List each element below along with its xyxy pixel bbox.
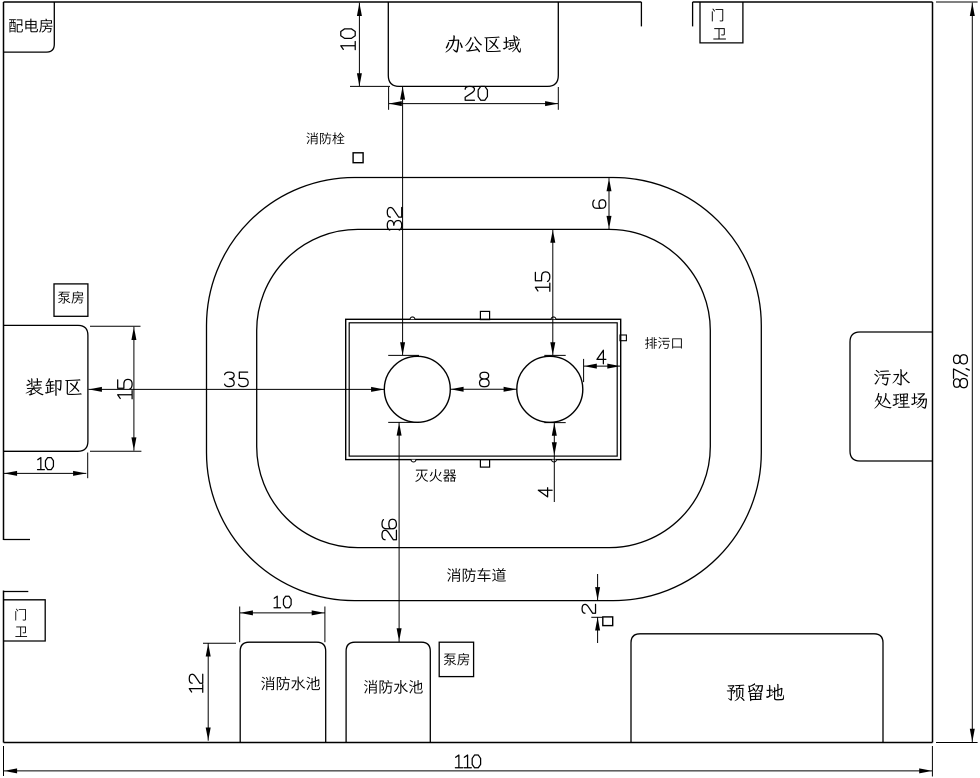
label: text 泵房 (bottom) [444,653,469,665]
fire hydrant square (bottom, near reserved land) [603,617,613,626]
label: text 消防水池 (pool 2) [364,680,423,694]
dimension 26 (tank to pool): line + arrows [397,422,402,641]
label: text 门 (bottom gate house) [15,609,26,621]
dimension text 2 [582,604,595,613]
dimension text 12 [189,674,202,692]
vent bump top-right [551,317,556,319]
dimension text 87.8 [954,355,970,388]
label: text 配电房 [9,19,52,33]
dimension text 110 [455,755,480,768]
vent bump top-left [410,317,415,319]
dimension text 15 (left) [118,379,132,398]
dimension text 10 (loading area) [38,458,54,470]
site boundary gate jambs (top-right gate) [641,2,692,26]
label: text 消防水池 (pool 1) [261,677,320,691]
building: reserved land 预留地 outline [631,634,883,743]
dimension 32 (office to tank): line + arrows [400,86,405,355]
site boundary left edge (with gate opening) [3,2,5,743]
dimension text 20 (office width) [465,86,487,100]
dimension text 15 (right) [535,272,549,291]
dimension text 4 (bottom) [538,488,552,497]
dimension 110 (site width): line + arrows + extensions [4,746,933,777]
dimension text 6 [593,200,606,209]
tick at tank T2 bottom [544,422,565,424]
site boundary right edge [932,2,934,743]
label: text 消防车道 (fire lane) [447,568,506,582]
vent bump bottom-left [411,460,416,462]
dimension 87.8 (site height): line + arrows + extensions [936,2,978,743]
label: text 处理场 (line2) [874,393,927,409]
dimension 6 (lane width): line + arrows [607,178,612,229]
label: text 排污口 [645,337,682,349]
label: text 灭火器 [415,469,456,482]
tank T1 (left circle) [384,356,450,422]
dimension 10 (loading area width): line + arrows + extension [4,453,88,479]
dimension 2 (lane edge to hydrant): lines + arrows + tick [591,574,603,643]
fire hydrant 消防栓 square (top) [353,153,363,163]
dimension 20 (office width): line + arrows + extensions [389,87,559,110]
tick at tank T1 bottom [388,421,419,423]
building: fire water pool 1 消防水池 outline [240,642,326,742]
dimension text 4 (right) [597,350,606,363]
vent bump bottom-right [552,460,557,462]
label: text 卫 (top gate house) [713,28,726,39]
sewage outlet marker 排污口 square [620,335,626,341]
label: text 消防栓 [306,132,344,144]
dimension 15 (lane to tank): line + arrows [550,230,555,356]
dimension text 10 (pool width) [274,596,291,608]
dimension 15 (loading area height): line + arrows + extensions [90,326,141,451]
dimension 8 (tank spacing): line + arrows [450,387,516,392]
dimension text 26 [382,519,396,540]
dimension 4 (tank to wall, right): line + arrows + extension [584,359,621,382]
label: text 预留地 [727,683,784,701]
dimension 35 (loading area to tank): line + arrows [89,387,385,392]
dimension 10 (pool width): line + arrows + extensions [240,607,325,643]
site boundary gate jambs (bottom-left gate) [4,540,31,592]
site boundary bottom edge [4,742,933,744]
tank enclosure inner wall [349,323,617,456]
building: pump room 泵房 (bottom) [439,642,473,676]
label: text 门 (top gate house) [712,9,723,22]
site boundary top edge (with gate opening) [4,1,933,3]
dimension text 35 [225,372,249,386]
label: text 泵房 (left) [58,291,83,303]
dimension 4 (tank to wall, bottom): line + arrows [552,423,557,502]
label: text 办公区域 [445,35,521,52]
dimension 12 (pool height): line + arrows + extension [203,643,236,740]
building: pump room 泵房 (left) [54,284,88,316]
dimension text 8 [480,372,490,386]
dimension text 10 (office depth) [341,29,355,50]
tank enclosure outer wall [346,319,621,459]
dimension 10 (office depth): line + arrows [350,3,390,87]
label: text 污水 (line1) [874,369,910,386]
building: gate house 门卫 (bottom left) [4,600,46,641]
tank T2 (right circle) [517,356,583,422]
fire extinguisher marker (bottom wall) [480,460,489,468]
room: power distribution 配电房 outline [4,2,55,52]
building: office area 办公区域 outline [388,2,558,86]
label: text 卫 (bottom gate house) [15,627,27,637]
building: loading area 装卸区 outline [4,325,88,451]
fire lane ring: outer edge [207,178,762,601]
building: sewage treatment 污水处理场 outline [850,332,933,461]
dimension text 32 [387,208,401,231]
label: text 装卸区 [26,378,82,396]
tick at tank T2 top [544,354,565,356]
building: gate house 门卫 (top right) [700,2,743,43]
building: fire water pool 2 消防水池 outline [346,642,430,742]
fire extinguisher marker (top wall) [480,311,489,319]
fire lane ring: inner edge [257,229,711,547]
tick at tank T1 top [388,354,419,356]
